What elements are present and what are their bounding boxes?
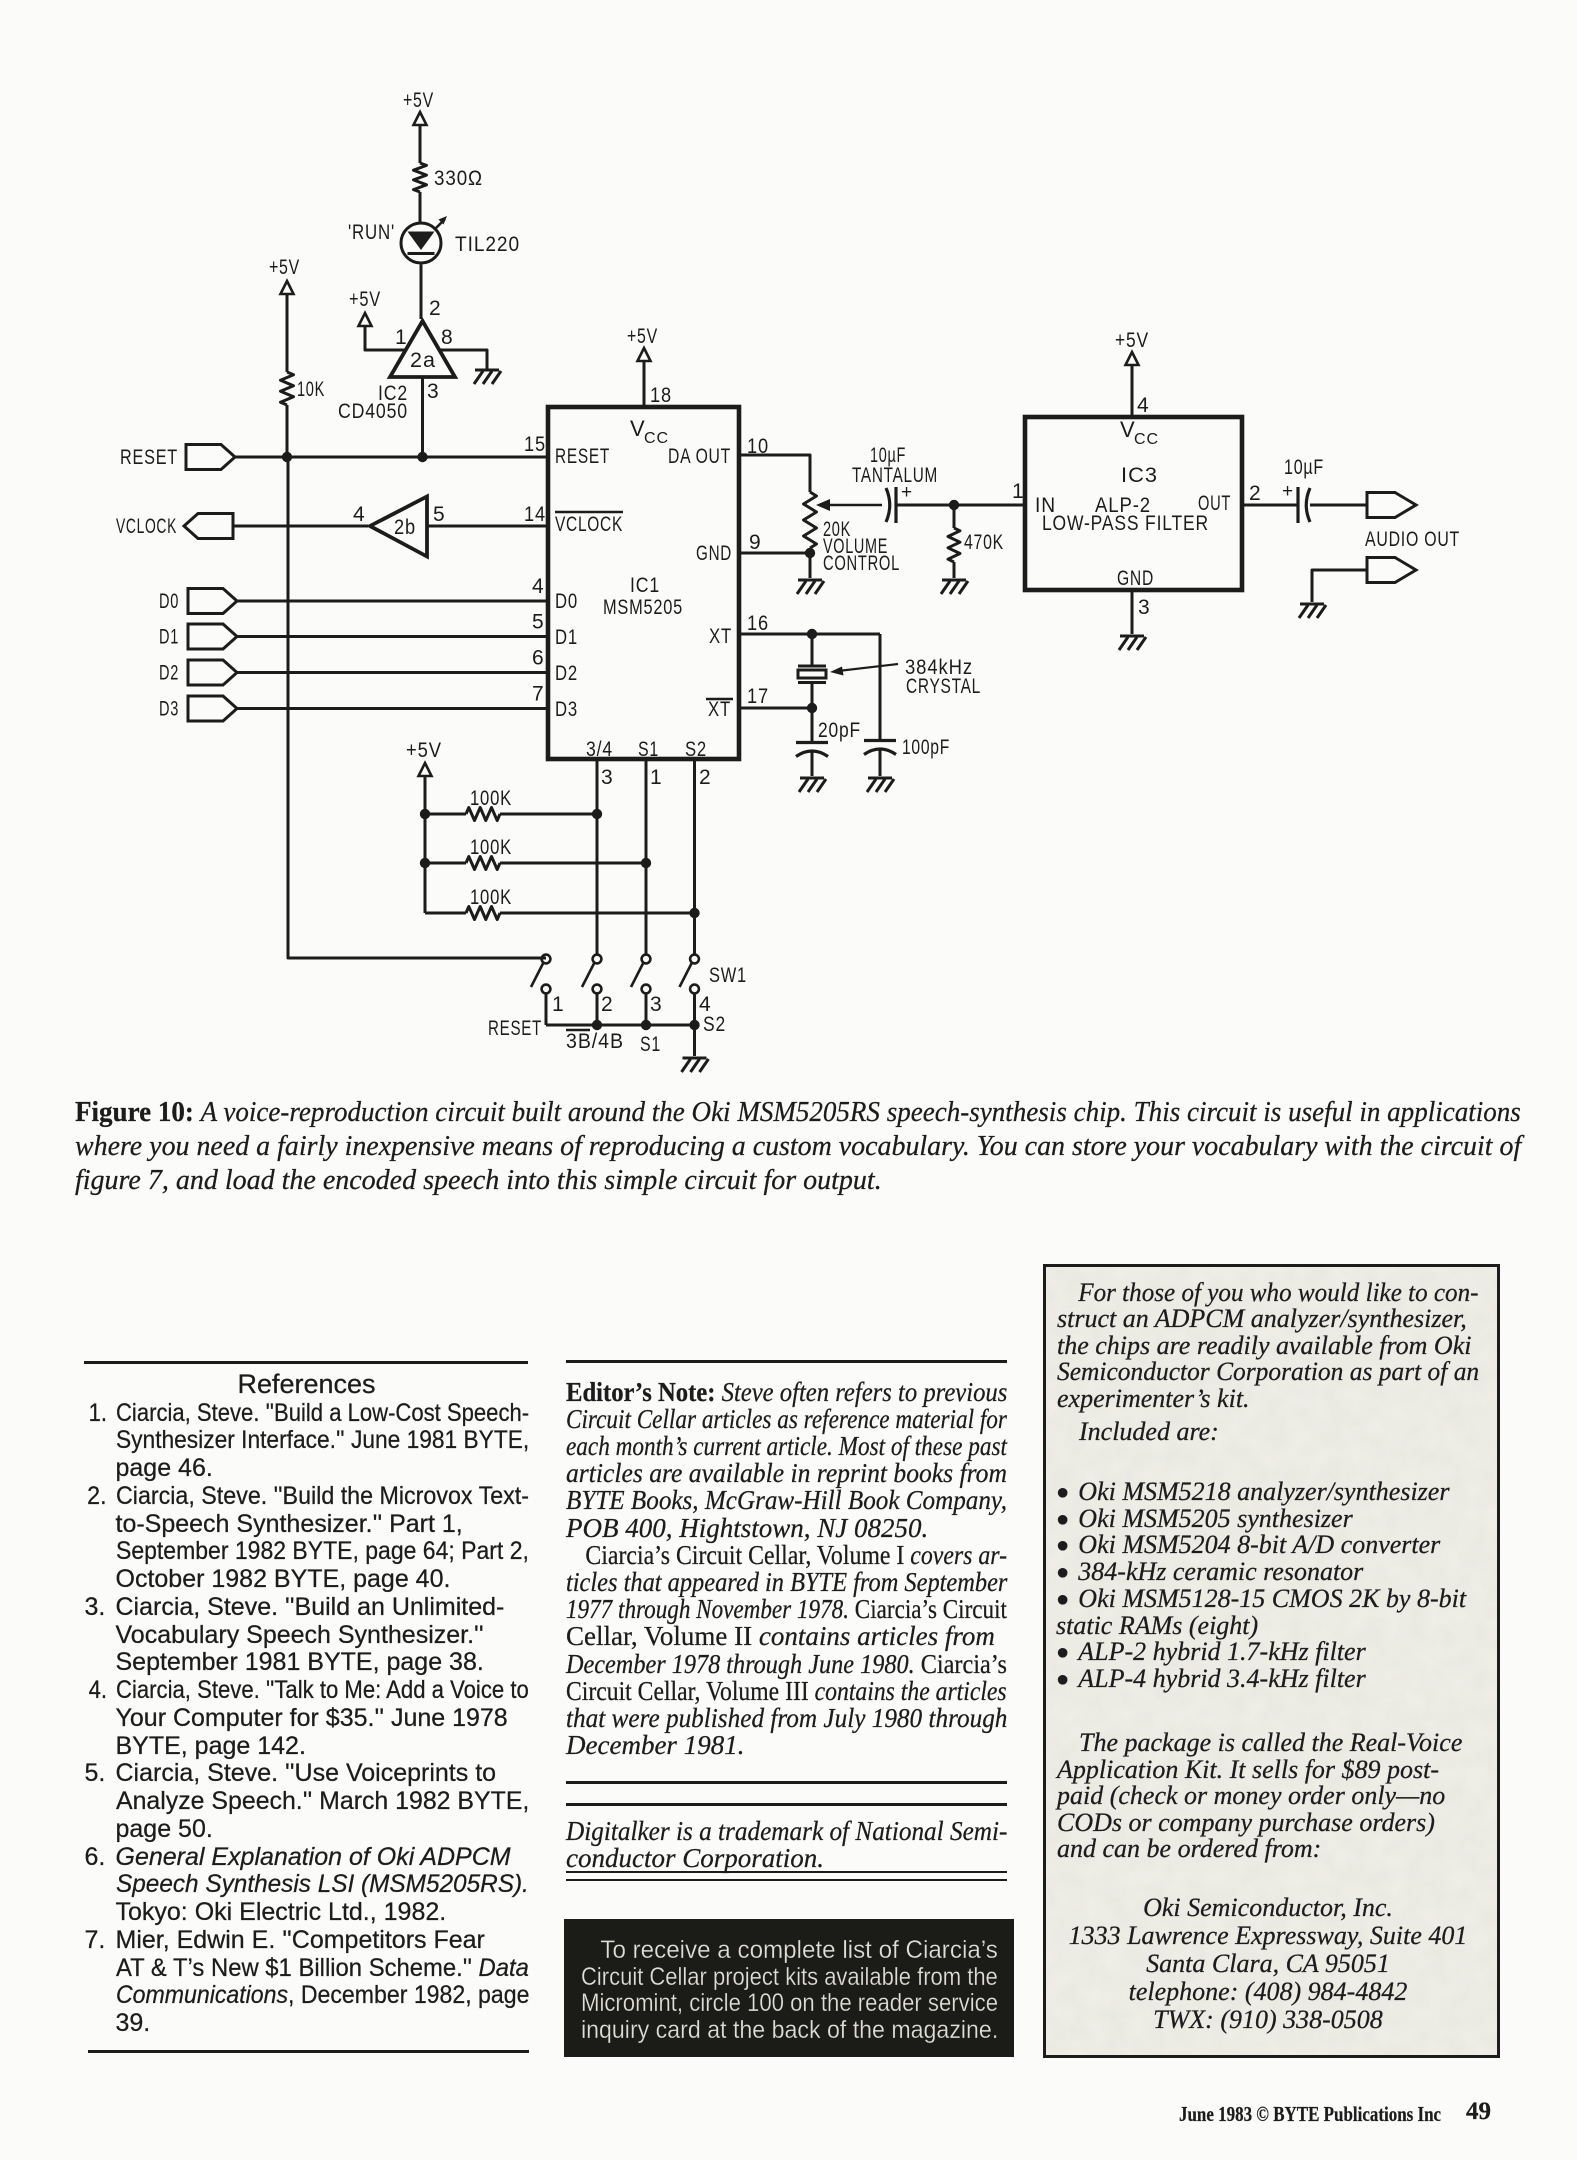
wire 100K #2 right [500,862,646,865]
capacitor 20pF [796,743,828,757]
svg-text:'RUN': 'RUN' [348,221,395,244]
wire +5V to IC1 Vcc [643,361,646,407]
svg-text:9: 9 [749,531,762,554]
svg-text:3: 3 [427,380,440,403]
svg-text:16: 16 [747,612,769,635]
junction XTbar [807,703,817,713]
svg-text:6: 6 [532,647,545,670]
wire +5V to pin1 2a [365,326,406,350]
svg-text:XT: XT [708,698,731,721]
svg-text:3: 3 [601,766,614,789]
resistor 100K #1 [466,808,500,821]
svg-text:100pF: 100pF [902,736,950,759]
wire IC1 pin14 to 2b [427,525,548,528]
power +5V (LED branch) [414,112,427,125]
svg-text:+5V: +5V [403,89,434,112]
crystal 384kHz [798,666,826,683]
svg-text:D1: D1 [555,626,578,649]
ground (IC3) [1119,636,1146,650]
switch bus [546,1024,695,1027]
ground (470K) [941,580,968,594]
wire SW1 pole 3 to bus [645,994,648,1026]
wire D1 to IC1 [237,635,548,638]
junction +5V row2 [420,858,430,868]
ground (100pF) [867,778,894,792]
svg-text:CONTROL: CONTROL [823,552,900,575]
wire 3/4 pin3 column [596,759,599,954]
IC3 ALP-2 box [1025,417,1242,590]
wire junction to 470K [953,505,956,528]
wire XT to crystal [811,634,814,666]
switch SW1 pole 2 [593,955,602,964]
junction bus 3B/4B [592,1020,602,1030]
svg-text:10K: 10K [297,378,325,401]
svg-text:2b: 2b [394,516,416,539]
svg-text:TANTALUM: TANTALUM [852,464,938,487]
svg-text:S2: S2 [685,738,707,761]
svg-text:RESET: RESET [488,1017,542,1040]
svg-text:RESET: RESET [120,446,178,469]
junction RESET/10K [282,452,292,462]
svg-text:5: 5 [532,611,545,634]
references column [84,1361,528,1364]
svg-text:4: 4 [532,575,545,598]
wire S1 pin1 column [645,759,648,954]
svg-text:2a: 2a [410,349,436,372]
svg-text:XT: XT [709,625,732,648]
svg-text:4: 4 [1137,394,1150,417]
svg-text:5: 5 [433,503,446,526]
wire 470K to ground [953,562,956,578]
wire 100K #1 right [500,813,597,816]
svg-text:2: 2 [601,993,614,1016]
connector D3 input [188,696,237,721]
svg-text:S1: S1 [638,738,659,761]
junction bus S1 [641,1020,651,1030]
editor's note column [566,1360,1007,1363]
svg-text:1: 1 [395,326,408,349]
wire 100K #2 left [425,862,466,865]
wire SW1 pole 4 to bus [693,994,696,1026]
svg-text:D3: D3 [159,698,179,721]
svg-text:LOW-PASS FILTER: LOW-PASS FILTER [1042,512,1209,535]
junction col3/row1 [592,809,602,819]
connector RESET input [186,445,235,470]
crystal callout arrow [838,664,898,671]
ground (audio return) [1299,604,1326,618]
svg-text:GND: GND [696,542,732,565]
wire D3 to IC1 [237,707,548,710]
capacitor 10uF output [1296,487,1299,523]
switch SW1 pole 4 [690,955,699,964]
svg-text:+5V: +5V [627,325,658,348]
ground (20pF) [799,778,826,792]
LED TIL220 'RUN' [401,223,441,263]
svg-text:100K: 100K [470,886,512,909]
svg-text:+5V: +5V [406,739,442,762]
circuit schematic figure 10 [0,0,1577,1080]
wire +5V to IC3 Vcc [1131,365,1134,417]
resistor 100K #2 [466,857,500,870]
wire IC3 OUT [1242,504,1297,507]
svg-text:D1: D1 [159,626,179,649]
svg-text:2: 2 [429,297,442,320]
wire GND pin9 to pot bottom [739,552,810,555]
op-amp buffer 2a (IC2) [390,321,455,377]
switch SW1 pole 3 [642,955,651,964]
svg-text:TIL220: TIL220 [455,233,520,256]
wire IC3 GND down [1131,590,1134,634]
svg-text:100K: 100K [470,787,512,810]
capacitor 100pF [864,741,896,755]
wire DA OUT to pot [739,455,810,492]
wire S2 pin2 column [693,759,696,954]
connector AUDIO OUT return [1367,558,1416,583]
connector VCLOCK output [184,514,233,539]
svg-text:2: 2 [1249,482,1262,505]
svg-text:CC: CC [1134,431,1159,448]
svg-text:4: 4 [353,503,366,526]
op-amp buffer 2b (IC2) [370,497,427,557]
ground (2a pin8) [474,370,501,384]
wire pot to junction [809,548,812,578]
svg-text:SW1: SW1 [709,964,747,987]
svg-text:VCLOCK: VCLOCK [116,515,177,538]
svg-text:20pF: 20pF [818,719,861,742]
junction colS2/row3 [689,908,699,918]
wire +5V col [424,776,427,913]
svg-text:D0: D0 [159,590,179,613]
svg-text:2: 2 [699,766,712,789]
resistor 100K #3 [466,907,500,920]
svg-text:14: 14 [524,503,546,526]
wire R10K to RESET line [286,405,289,457]
Oki sidebar box [1043,1264,1500,2058]
resistor 10K [281,372,294,405]
svg-text:S2: S2 [703,1013,726,1036]
resistor 470K [948,528,960,562]
switch SW1 pole 1 [542,955,551,964]
svg-text:DA OUT: DA OUT [668,445,731,468]
wire 20pF to ground [811,752,814,776]
svg-text:1: 1 [552,993,565,1016]
wire XT branch to 100pF [879,634,882,740]
svg-text:+5V: +5V [349,288,381,311]
junction XT [807,629,817,639]
capacitor 10uF tantalum [886,488,890,522]
wire D0 to IC1 [237,600,548,603]
svg-text:AUDIO OUT: AUDIO OUT [1365,528,1460,551]
wire XTbar pin17 [739,707,812,710]
wire 100K #3 right [500,912,695,915]
junction +5V row1 [420,809,430,819]
wire R330 to LED [419,192,422,222]
svg-text:D2: D2 [159,662,179,685]
svg-text:D3: D3 [555,698,578,721]
svg-text:470K: 470K [964,531,1004,554]
svg-text:7: 7 [532,683,545,706]
connector D0 input [188,589,237,614]
wire S2 to ground [693,1025,696,1056]
connector AUDIO OUT signal [1367,493,1416,518]
wire audio return to ground [1312,570,1367,602]
svg-text:GND: GND [1117,567,1154,590]
svg-text:S1: S1 [640,1033,661,1056]
svg-text:15: 15 [524,433,546,456]
svg-text:+5V: +5V [269,256,300,279]
wire D2 to IC1 [237,671,548,674]
svg-text:100K: 100K [470,836,512,859]
svg-text:1: 1 [650,766,663,789]
svg-text:MSM5205: MSM5205 [603,596,683,619]
svg-text:3B/4B: 3B/4B [566,1030,624,1053]
wire SW1 pole 2 to bus [596,994,599,1026]
wire 100K #1 left [425,813,466,816]
wire cap to junction [896,504,954,507]
junction pot/GND [805,548,815,558]
svg-text:18: 18 [650,384,672,407]
wire LED to buffer 2a [420,265,423,320]
wire 100K #3 left [425,912,466,915]
junction RESET/2a [417,452,427,462]
svg-text:VCLOCK: VCLOCK [555,513,623,536]
wire XTbar to 20pF [811,708,814,742]
svg-text:CD4050: CD4050 [338,400,408,423]
wire junction to IC3 IN [954,504,1025,507]
svg-text:8: 8 [441,326,454,349]
page footer [1179,2102,1441,2127]
svg-text:D0: D0 [555,590,578,613]
wire SW1 pole 1 to bus [545,994,548,1026]
wire 2a output to RESET line [421,377,424,457]
wire cap to audio out [1310,504,1367,507]
connector D1 input [188,624,237,649]
pot wiper arrow [826,504,882,507]
svg-text:3: 3 [1138,596,1151,619]
power +5V (100K rows) [419,763,432,776]
svg-text:+: + [1282,481,1294,502]
potentiometer 20K (volume) [804,492,817,548]
figure caption [75,1096,1521,1198]
wire RESET junction down to SW1 [288,457,546,958]
wire 2b output to VCLOCK [233,525,368,528]
ground (SW1) [682,1058,709,1072]
junction colS1/row2 [641,858,651,868]
wire crystal to XTbar [811,683,814,709]
wire RESET to IC1 pin15 [235,456,548,459]
svg-text:RESET: RESET [555,445,610,468]
power +5V (10K) [281,281,294,294]
wire 100pF to ground [879,750,882,776]
connector D2 input [188,660,237,685]
IC1 MSM5205 box [548,407,739,759]
svg-text:+5V: +5V [1115,329,1149,352]
wire +5V to R10K [286,294,289,372]
power +5V (2a pin1) [359,313,372,326]
svg-text:3: 3 [650,993,663,1016]
svg-text:CC: CC [644,430,669,447]
svg-text:IC1: IC1 [630,574,660,597]
svg-text:3/4: 3/4 [586,738,613,761]
power +5V (IC3 pin4) [1126,352,1139,365]
wire XT pin16 [739,633,880,636]
junction 470K [949,500,959,510]
svg-text:CRYSTAL: CRYSTAL [906,675,981,698]
resistor 330 ohm [414,163,427,192]
ground (pot) [797,580,824,594]
svg-text:IC3: IC3 [1121,464,1158,487]
svg-text:330Ω: 330Ω [434,167,483,190]
svg-text:17: 17 [747,685,769,708]
power +5V (IC1 pin18) [638,348,651,361]
junction bus S2 [689,1020,699,1030]
svg-text:10µF: 10µF [1284,456,1324,479]
svg-text:D2: D2 [555,662,578,685]
wire pin8 2a to ground [440,350,487,369]
wire +5V to R 330 [419,125,422,163]
